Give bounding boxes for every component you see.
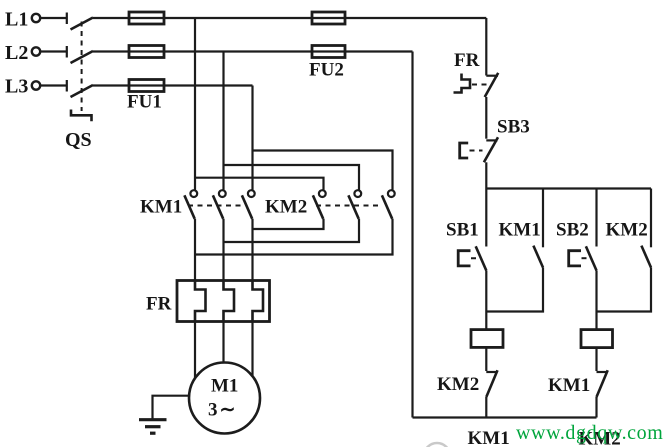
fuse FU1 pole 3 <box>129 80 164 92</box>
wire phase A down to KM1 pole 1 <box>194 18 196 190</box>
thermal relay FR box <box>177 281 270 322</box>
svg-text:FR: FR <box>454 50 480 71</box>
pushbutton SB1 NO contact <box>476 246 487 270</box>
wire KM2 pole 3 crossover to phase A <box>195 219 393 255</box>
contactor KM2 main contact 2 <box>348 190 361 219</box>
wire rail to SB1 <box>485 189 487 247</box>
wire SB3 to top rail <box>485 162 487 188</box>
contact KM2 aux NO <box>641 246 651 268</box>
switch QS pole 2 <box>67 46 93 63</box>
svg-text:M1: M1 <box>211 376 238 397</box>
fuse FU2 pole 1 <box>312 12 345 24</box>
wire control return from L2 <box>411 52 413 418</box>
fuse FU2 pole 2 <box>312 46 345 58</box>
svg-text:KM2: KM2 <box>437 374 479 395</box>
watermark arc <box>424 443 450 447</box>
svg-text:FU2: FU2 <box>309 60 344 81</box>
contactor KM1 main contact 2 <box>213 190 226 219</box>
wire interlock 2 to bottom rail <box>595 397 597 418</box>
svg-text:3∼: 3∼ <box>208 400 235 421</box>
contactor KM1 main contact 1 <box>184 190 197 219</box>
coil KM1 <box>471 330 503 348</box>
wire SB2 down to coil KM2 <box>595 271 597 330</box>
wire L1 terminal to QS <box>41 17 67 19</box>
contact KM1 aux NO <box>533 246 543 268</box>
motor M1 <box>189 363 260 434</box>
wire L2 QS to left rail corner <box>93 50 413 52</box>
svg-text:SB1: SB1 <box>446 220 479 241</box>
svg-text:SB2: SB2 <box>556 220 589 241</box>
wire motor to ground <box>153 396 190 420</box>
wire L1 QS to node A <box>93 17 486 19</box>
SB3 actuator link <box>470 150 483 152</box>
svg-text:KM1: KM1 <box>468 428 510 447</box>
wire FR to motor W <box>251 322 253 377</box>
FR heater element 1 <box>195 281 206 322</box>
wire rail to KM1 aux <box>542 189 544 248</box>
wire coil KM1 to interlock <box>485 347 487 371</box>
interlock KM2 NC contact <box>486 370 497 397</box>
pushbutton SB3 NC contact <box>484 137 498 162</box>
svg-text:SB3: SB3 <box>497 117 530 138</box>
wire L2 terminal to QS <box>41 50 67 52</box>
wire L3 terminal to QS <box>41 84 67 86</box>
wire phase B down to KM1 pole 2 <box>222 52 224 191</box>
FR trip element <box>454 74 471 93</box>
svg-text:KM2: KM2 <box>606 220 648 241</box>
wire rail to SB2 <box>595 189 597 247</box>
wire KM2 pole 1 crossover to phase C <box>253 219 324 229</box>
svg-text:FU1: FU1 <box>127 92 162 113</box>
wire coil KM2 to interlock <box>595 348 597 371</box>
wire phase A branch to KM2 pole 1 <box>195 178 324 191</box>
wire KM1 pole 2 down to FR <box>222 219 224 281</box>
node L2 <box>5 42 40 64</box>
KM1 mechanical link <box>188 205 244 207</box>
svg-text:L3: L3 <box>5 76 28 98</box>
SB1 actuator <box>458 251 470 266</box>
wire KM1 aux merge <box>486 268 543 312</box>
svg-text:FR: FR <box>146 294 172 315</box>
FR heater element 2 <box>224 281 235 322</box>
wire SB1 down to coil KM1 <box>485 271 487 330</box>
svg-text:KM1: KM1 <box>140 197 182 218</box>
svg-text:L2: L2 <box>5 42 28 64</box>
switch QS pole 3 <box>67 80 93 97</box>
SB2 actuator <box>569 251 581 266</box>
node L3 <box>5 76 40 98</box>
svg-text:www.dgdqw.com: www.dgdqw.com <box>516 422 663 444</box>
KM2 mechanical link <box>316 205 382 207</box>
SB1 actuator link <box>471 257 481 259</box>
pushbutton SB2 NO contact <box>586 246 597 270</box>
QS handle <box>71 110 92 122</box>
wire phase B branch to KM2 pole 2 <box>224 165 360 190</box>
contactor KM2 main contact 1 <box>313 190 326 219</box>
fuse FU1 pole 2 <box>129 46 164 58</box>
fuse FU1 pole 1 <box>129 12 164 24</box>
svg-text:KM2: KM2 <box>265 197 307 218</box>
SB2 actuator link <box>582 257 592 259</box>
interlock KM1 NC contact <box>597 370 608 397</box>
contactor KM1 main contact 3 <box>242 190 255 219</box>
wire L3 QS to corner <box>93 84 253 86</box>
node L1 <box>5 9 40 31</box>
FR heater element 3 <box>253 281 264 322</box>
wire bottom rail <box>413 416 597 418</box>
wire control feed down from L1 <box>485 18 487 76</box>
wire phase C down to KM1 pole 3 <box>251 86 253 191</box>
contactor KM2 main contact 3 <box>382 190 395 219</box>
wire KM2 pole 2 to phase B <box>224 219 360 242</box>
wire FR to motor V <box>222 322 224 364</box>
switch QS pole 1 <box>67 13 93 30</box>
ground <box>139 420 167 434</box>
wire KM1 pole 3 down to FR <box>251 219 253 281</box>
FR NC contact <box>485 73 499 97</box>
wire top rail <box>486 187 651 189</box>
svg-text:QS: QS <box>65 129 92 151</box>
wire FR to motor U <box>194 322 196 379</box>
svg-text:KM1: KM1 <box>548 375 590 396</box>
svg-text:KM1: KM1 <box>499 220 541 241</box>
wire KM1 pole 1 down to FR <box>194 219 196 281</box>
FR trip link <box>472 84 487 86</box>
SB3 actuator <box>460 143 469 158</box>
svg-text:L1: L1 <box>5 9 28 31</box>
wire KM2 aux merge <box>597 268 652 312</box>
wire phase C branch to KM2 pole 3 <box>253 151 393 191</box>
wire rail to KM2 aux <box>650 189 652 248</box>
wire FR to SB3 <box>485 97 487 139</box>
coil KM2 <box>581 330 613 348</box>
QS mechanical link <box>81 22 83 112</box>
wire interlock to bottom rail <box>485 397 487 418</box>
